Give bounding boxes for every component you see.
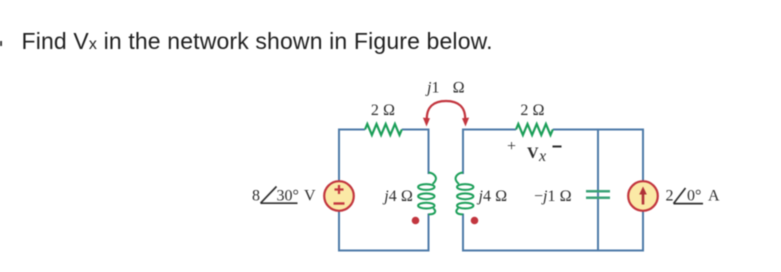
list-number remnant at left edge [0,41,2,46]
current source arrow up [642,193,645,205]
wire: top between R1 and left coil, corner down to coil top [402,130,429,175]
voltage source Vs circle [324,181,354,211]
label Vx polarity minus [553,146,562,148]
wire: bottom-left loop [339,211,429,251]
wire: capacitor branch vertical [597,130,599,251]
arrowhead left of coupling arc [423,118,430,127]
capacitor C1 -j1 ohm plates [586,191,610,198]
svg-text:A: A [708,188,720,205]
arrowhead right of coupling arc [462,118,469,127]
svg-text:0°: 0° [687,188,701,205]
mutual coupling arc j1 ohm [427,101,465,120]
svg-text:8: 8 [252,188,260,205]
svg-text:+: + [507,138,516,155]
current source Is circle [628,181,658,211]
wire: right coil top up and right to resistor R2 [463,130,516,175]
svg-text:2 Ω: 2 Ω [371,102,395,119]
svg-text:30°: 30° [277,188,299,205]
wire: bottom-right loop [463,211,643,251]
inductor L2 j4ohm (right coil) [456,173,474,215]
problem statement text [22,28,493,55]
svg-text:2 Ω: 2 Ω [520,102,544,119]
resistor R1 2ohm zigzag [365,124,402,135]
dot mark of coupled coil L1 [412,217,420,225]
svg-text:V: V [527,145,539,162]
wire: top-right from R2 to right edge, down to current source [553,130,643,182]
voltage source plus sign [335,185,344,194]
wire: top-left from source up and right to resistor R1 [339,130,365,182]
voltage source minus sign [334,202,345,204]
dot mark of coupled coil L2 [471,217,479,225]
svg-text:x: x [538,148,546,165]
resistor R2 2ohm zigzag [516,124,553,135]
svg-text:2: 2 [666,188,674,205]
svg-text:−j1 Ω: −j1 Ω [534,188,572,205]
svg-text:V: V [304,188,316,205]
inductor L1 j4ohm (left coil) [418,173,436,215]
svg-text:j4 Ω: j4 Ω [382,188,413,205]
svg-text:j4 Ω: j4 Ω [477,188,508,205]
svg-text:j1 Ω: j1 Ω [425,80,465,97]
